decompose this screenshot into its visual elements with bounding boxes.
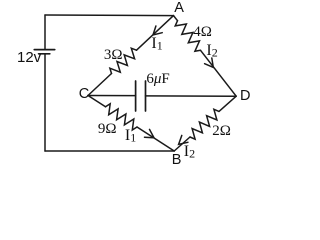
arrow I1 on branch A-C (153, 26, 162, 35)
wire A to 3-ohm resistor (137, 16, 174, 51)
label battery 12v (17, 50, 41, 65)
label node B (172, 153, 182, 168)
wire C to capacitor (88, 95, 136, 97)
wire A to 4-ohm resistor (174, 16, 178, 21)
arrow I2 on branch A-D (205, 58, 214, 67)
label capacitor 6uF (146, 72, 169, 87)
wire bottom rail (45, 150, 174, 152)
label resistor 4-ohm (193, 25, 212, 40)
battery 12v plate short (39, 53, 50, 55)
wire D to 2-ohm resistor (219, 96, 236, 111)
arrow I2 on branch D-B (179, 135, 188, 144)
wire left rail lower (44, 54, 46, 151)
wire 2-ohm resistor to B (174, 137, 190, 151)
battery 12v plate long (34, 49, 54, 51)
wire 4-ohm resistor to D (201, 50, 237, 96)
label current I2 lower (184, 144, 195, 160)
wire top rail (45, 14, 174, 17)
wire 9-ohm resistor to B (137, 127, 174, 151)
arrow I1 on branch C-B (145, 129, 155, 137)
wire 3-ohm resistor to C (88, 74, 112, 96)
label resistor 9-ohm (98, 122, 117, 137)
resistor R 3-ohm (110, 48, 137, 73)
resistor R 9-ohm (106, 104, 138, 130)
label node D (240, 89, 250, 104)
label node A (174, 1, 184, 16)
resistor R 2-ohm (190, 109, 219, 139)
label resistor 3-ohm (104, 48, 123, 63)
resistor R 4-ohm (175, 21, 200, 52)
label current I1 upper (151, 36, 162, 52)
wire capacitor to D (146, 95, 237, 97)
label resistor 2-ohm (212, 124, 231, 139)
label current I2 upper (206, 43, 217, 59)
capacitor C 6uF plate right (145, 81, 147, 111)
label node C (79, 87, 89, 102)
label current I1 lower (125, 128, 136, 144)
capacitor C 6uF plate left (135, 81, 137, 111)
wire left rail upper (44, 15, 46, 50)
wire C to 9-ohm resistor (88, 96, 106, 107)
